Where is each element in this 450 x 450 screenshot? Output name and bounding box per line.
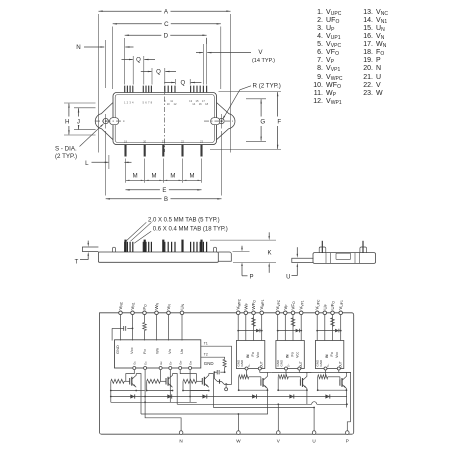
svg-text:FO: FO	[142, 304, 148, 310]
U phase bus	[213, 407, 314, 409]
dimension Q (pins 8-9)	[151, 68, 153, 85]
side view: boss left	[112, 247, 115, 252]
wire left rail	[110, 391, 112, 403]
svg-text:(2 TYP.): (2 TYP.)	[55, 153, 77, 160]
wire VN	[168, 315, 170, 341]
module body outline	[113, 93, 217, 145]
driver W output pins	[245, 367, 248, 370]
svg-text:GND: GND	[280, 359, 284, 367]
resistor RUF	[331, 318, 335, 326]
svg-text:Fo: Fo	[142, 349, 147, 354]
svg-text:Gu: Gu	[133, 361, 137, 365]
svg-text:Eu: Eu	[143, 361, 147, 365]
wire UN	[181, 315, 183, 341]
driver output pin Ev	[169, 367, 172, 370]
wire emitter node W	[239, 389, 268, 391]
svg-text:IN: IN	[246, 354, 250, 358]
svg-text:8: 8	[151, 101, 153, 105]
svg-text:IN: IN	[286, 354, 290, 358]
terminal VN1	[131, 311, 135, 315]
diode D1	[130, 394, 134, 398]
svg-text:M: M	[133, 174, 138, 180]
dimension U	[297, 254, 299, 258]
mounting ear left	[95, 103, 113, 140]
svg-text:19: 19	[124, 139, 127, 143]
terminal VWPC	[236, 311, 240, 315]
wire emitter sense pin	[144, 370, 146, 391]
wire collector Q4	[266, 372, 268, 374]
svg-text:1: 1	[124, 101, 126, 105]
svg-text:Vcc: Vcc	[129, 347, 134, 354]
resistor R2 gate	[147, 379, 161, 383]
wire collector rail to P	[307, 371, 312, 373]
terminal VWP1	[260, 311, 264, 315]
dimension A	[99, 10, 162, 12]
svg-text:2.0 X 0.5 MM TAB (5 TYP.): 2.0 X 0.5 MM TAB (5 TYP.)	[148, 218, 220, 224]
diode D2	[167, 394, 171, 398]
svg-text:7: 7	[148, 101, 150, 105]
svg-text:VP: VP	[283, 304, 289, 310]
dimension P	[233, 250, 250, 252]
svg-text:S−: S−	[286, 363, 290, 367]
dimension D	[125, 34, 162, 36]
svg-text:U: U	[286, 275, 290, 281]
wire emitter bus Q3	[183, 390, 209, 392]
end view: top recess	[336, 253, 351, 259]
terminal VP	[284, 311, 288, 315]
dimension J	[74, 107, 96, 109]
thermistor TH1	[223, 359, 226, 367]
wire VN1 down to driver VCC	[132, 315, 134, 341]
dimension Q (pins 12-13)	[174, 79, 176, 85]
svg-text:L: L	[85, 160, 89, 167]
wire collector rail to P	[267, 371, 272, 373]
svg-text:12: 12	[174, 102, 177, 106]
driver output pin Ew	[189, 367, 192, 370]
svg-text:J: J	[77, 119, 80, 126]
wire collector Q1 to phase	[136, 374, 141, 415]
diode DWb bootstrap	[256, 329, 260, 333]
side view: mounting flange left	[82, 247, 98, 252]
wire VNC down to driver GND	[120, 315, 122, 341]
terminal V	[277, 431, 281, 435]
wire emitter bus Q2	[147, 390, 173, 392]
svg-text:S−: S−	[326, 363, 330, 367]
N bus step	[145, 402, 181, 431]
svg-text:GND: GND	[115, 345, 120, 354]
svg-text:S - DIA.: S - DIA.	[55, 146, 77, 153]
svg-text:D: D	[164, 32, 169, 39]
svg-text:Q: Q	[136, 58, 141, 64]
wire OUT to gate W	[246, 370, 248, 377]
svg-text:P: P	[346, 439, 349, 444]
dimension G	[246, 98, 266, 100]
wire collector Q3 to phase	[209, 374, 214, 408]
wire emitter sense pin	[169, 370, 171, 391]
transistor Q4 IGBT high-side W	[260, 379, 262, 386]
wire collector rail to P	[346, 371, 351, 373]
wire collector Q2 to phase	[173, 374, 178, 405]
dimension C	[113, 23, 162, 25]
wire emitter bus Q1	[111, 390, 145, 392]
svg-text:VNC: VNC	[118, 301, 124, 309]
terminal UFO	[331, 311, 335, 315]
svg-text:Q: Q	[156, 70, 161, 76]
resistor RVF	[291, 318, 295, 326]
svg-text:4: 4	[132, 101, 134, 105]
U-phase high side input wires	[316, 315, 318, 331]
diode D5	[289, 394, 293, 398]
svg-text:20: 20	[143, 139, 146, 143]
diode D6	[325, 394, 329, 398]
P collector rail	[272, 371, 312, 373]
svg-text:Q: Q	[180, 81, 185, 87]
svg-text:VWPC: VWPC	[236, 298, 242, 309]
wire R2 left leg	[146, 381, 148, 390]
svg-text:Ew: Ew	[188, 361, 192, 365]
svg-text:V: V	[277, 439, 281, 444]
mounting ear right	[217, 103, 235, 140]
terminal N	[179, 431, 183, 435]
svg-text:B: B	[164, 197, 168, 203]
op-amp UV high-side driver IC	[276, 341, 304, 369]
transistor Q2 IGBT low-side	[165, 378, 167, 385]
end view: baseplate tab	[292, 258, 314, 262]
svg-text:UFO: UFO	[330, 301, 336, 310]
wire emitter to phase bus U	[345, 390, 347, 407]
wire emitter-sense left leg U	[317, 377, 319, 390]
bottom terminals 19-23	[124, 145, 126, 157]
wire to N bus	[189, 391, 191, 403]
dimension T	[88, 243, 90, 247]
svg-text:E: E	[162, 188, 166, 194]
side view: signal pins (18)	[124, 242, 126, 252]
svg-text:GND: GND	[204, 361, 214, 366]
svg-text:Gv: Gv	[159, 361, 163, 365]
capacitor C1 on VN1	[127, 327, 132, 329]
driver output pin Gw	[179, 367, 182, 370]
svg-text:UP: UP	[322, 303, 328, 309]
svg-text:GND: GND	[240, 359, 244, 367]
centerline horizontal	[95, 120, 126, 122]
wire gate pin to R1	[126, 370, 135, 381]
hole center extension lines for B	[105, 114, 107, 129]
wire emitter node U	[318, 389, 347, 391]
svg-text:VVP1: VVP1	[299, 300, 305, 309]
side notch left	[110, 118, 119, 125]
svg-text:T1: T1	[204, 341, 208, 345]
svg-text:T2: T2	[204, 352, 208, 356]
svg-text:N: N	[76, 44, 80, 51]
V phase bus	[177, 403, 311, 405]
dimension F	[219, 91, 282, 93]
terminal WFO	[252, 311, 256, 315]
svg-text:N: N	[179, 439, 182, 444]
svg-text:21: 21	[162, 139, 165, 143]
diode D3	[202, 394, 206, 398]
svg-text:18: 18	[205, 102, 208, 106]
wire collector Q6	[345, 372, 347, 374]
end view: case body	[313, 253, 376, 264]
svg-text:Fo: Fo	[330, 352, 334, 356]
svg-text:M: M	[190, 174, 195, 180]
wire emitter-sense left leg V	[277, 377, 279, 390]
terminal WN	[155, 311, 159, 315]
svg-text:P: P	[249, 274, 253, 280]
wire emitter-sense left leg W	[238, 377, 240, 390]
diode DUb bootstrap	[335, 329, 339, 333]
svg-text:UN: UN	[180, 303, 186, 309]
wire OUT to gate V	[285, 370, 287, 377]
terminal W	[237, 431, 241, 435]
driver output pin Gv	[159, 367, 162, 370]
svg-text:R (2 TYP.): R (2 TYP.)	[253, 83, 281, 90]
svg-text:H: H	[65, 119, 69, 126]
svg-text:VN1: VN1	[130, 302, 136, 309]
side notch right	[211, 118, 220, 125]
wire R1 left leg	[110, 381, 112, 390]
wire to N bus	[144, 391, 146, 403]
svg-text:VUP1: VUP1	[338, 300, 344, 310]
op-amp UU high-side driver IC	[315, 341, 343, 369]
resistor R-FO pull-up	[144, 315, 146, 323]
svg-text:23: 23	[200, 139, 203, 143]
side view: case body	[98, 252, 218, 262]
transistor Q1 IGBT low-side	[129, 378, 131, 385]
terminal UP	[323, 311, 327, 315]
terminal WP	[244, 311, 248, 315]
N emitter bus	[111, 401, 197, 403]
wire emitter to phase bus W	[266, 390, 268, 414]
W phase bus	[141, 413, 268, 415]
svg-text:VWP1: VWP1	[259, 299, 265, 309]
terminal P	[346, 431, 350, 435]
terminal VN	[167, 311, 171, 315]
terminal VUP1	[339, 311, 343, 315]
resistor R1 gate	[111, 379, 124, 383]
svg-text:3: 3	[129, 101, 131, 105]
svg-text:0.6 X 0.4 MM TAB (18 TYP.): 0.6 X 0.4 MM TAB (18 TYP.)	[153, 226, 228, 232]
svg-text:5: 5	[143, 101, 145, 105]
V-phase high side input wires	[277, 315, 279, 331]
end view: pin right	[362, 241, 364, 253]
svg-text:6: 6	[145, 101, 147, 105]
svg-text:U: U	[312, 439, 315, 444]
diode DVb bootstrap	[296, 329, 300, 333]
side view: power tabs (5)	[124, 240, 126, 252]
terminal VVP1	[299, 311, 303, 315]
svg-text:22: 22	[181, 139, 184, 143]
terminal VFO	[291, 311, 295, 315]
dimension H	[64, 102, 96, 104]
wire gate pin to R2	[160, 370, 162, 381]
wire T1	[201, 346, 232, 384]
pin list column 2	[362, 9, 388, 99]
end view: pin left	[321, 241, 323, 253]
svg-text:S−: S−	[247, 363, 251, 367]
side view: boss right	[213, 247, 216, 252]
wire collector Q5	[306, 372, 308, 374]
dimension E	[126, 189, 160, 191]
schematic module border	[100, 313, 354, 434]
dimension B	[106, 198, 162, 200]
wire emitter sense pin	[189, 370, 191, 391]
terminal VVPC	[276, 311, 280, 315]
transistor Q7 sensor output	[214, 379, 221, 382]
svg-text:F: F	[277, 119, 281, 126]
centerline vertical	[164, 86, 166, 152]
transistor Q6 IGBT high-side U	[339, 379, 341, 386]
svg-text:WP: WP	[243, 302, 249, 309]
svg-text:K: K	[267, 250, 271, 256]
terminal VUPC	[315, 311, 319, 315]
svg-text:VVPC: VVPC	[275, 299, 281, 309]
svg-text:Fo: Fo	[251, 352, 255, 356]
svg-text:C: C	[164, 21, 169, 28]
resistor RWg gate	[239, 375, 249, 379]
dimension M row	[125, 159, 127, 183]
pin list column 1	[312, 9, 342, 107]
freewheel diode row	[111, 396, 347, 398]
dimension Q (pins 4-5)	[132, 56, 134, 85]
svg-text:VN: VN	[166, 304, 172, 310]
wire emitter to phase bus V	[306, 390, 308, 404]
driver output pin Eu	[144, 367, 147, 370]
capacitor C2	[224, 371, 226, 373]
diode D4	[252, 394, 256, 398]
svg-text:Vn: Vn	[167, 349, 172, 354]
op-amp UW high-side driver IC	[236, 341, 264, 369]
resistor RVg gate	[278, 375, 288, 379]
W-phase high side input wires	[237, 315, 239, 331]
wire WN	[156, 315, 158, 341]
wire emitter node V	[278, 389, 307, 391]
dimension K	[210, 239, 276, 241]
svg-text:Un: Un	[179, 349, 184, 354]
terminal VNC	[119, 311, 123, 315]
driver U output pins	[324, 367, 327, 370]
wire OUT to gate U	[325, 370, 327, 377]
svg-text:2: 2	[127, 101, 129, 105]
terminal FO	[143, 311, 147, 315]
end view: pin housings	[325, 253, 327, 264]
svg-text:Gw: Gw	[178, 361, 182, 365]
svg-text:A: A	[164, 8, 169, 15]
svg-text:V: V	[258, 49, 263, 56]
svg-text:VFO: VFO	[291, 301, 297, 310]
terminal U	[312, 431, 316, 435]
op-amp U4 low-side driver IC	[115, 340, 201, 368]
wire R3 left leg	[182, 381, 184, 390]
wire to N bus	[169, 391, 171, 403]
terminal UN	[180, 311, 184, 315]
svg-text:(14 TYP.): (14 TYP.)	[252, 58, 275, 64]
svg-text:WN: WN	[154, 302, 160, 309]
svg-text:G: G	[260, 119, 265, 126]
svg-text:Vcc: Vcc	[335, 352, 339, 358]
resistor R3 gate	[183, 379, 196, 383]
svg-text:Ev: Ev	[169, 361, 173, 365]
side view: flange block right	[218, 252, 231, 261]
svg-text:GND: GND	[319, 359, 323, 367]
svg-text:Wn: Wn	[155, 348, 160, 354]
svg-text:Fo: Fo	[290, 352, 294, 356]
driver V output pins	[285, 367, 288, 370]
svg-text:T: T	[75, 259, 79, 265]
svg-text:W: W	[236, 439, 241, 444]
P bus	[347, 422, 350, 431]
svg-text:M: M	[170, 174, 175, 180]
resistor RWF	[252, 318, 256, 326]
wire T2	[201, 357, 225, 359]
svg-text:VUPC: VUPC	[315, 299, 321, 310]
svg-text:M: M	[152, 174, 157, 180]
driver output pin Gu	[133, 367, 136, 370]
wire gate pin to R3	[180, 370, 196, 381]
svg-text:Vcc: Vcc	[296, 352, 300, 358]
svg-text:WFO: WFO	[251, 300, 257, 310]
resistor RUg gate	[318, 375, 328, 379]
sensor output terminal	[225, 388, 228, 391]
svg-text:IN: IN	[325, 354, 329, 358]
transistor Q3 IGBT low-side	[201, 378, 203, 385]
transistor Q5 IGBT high-side V	[299, 379, 301, 386]
svg-text:Vcc: Vcc	[256, 352, 260, 358]
top row pins 1-18	[124, 86, 126, 93]
